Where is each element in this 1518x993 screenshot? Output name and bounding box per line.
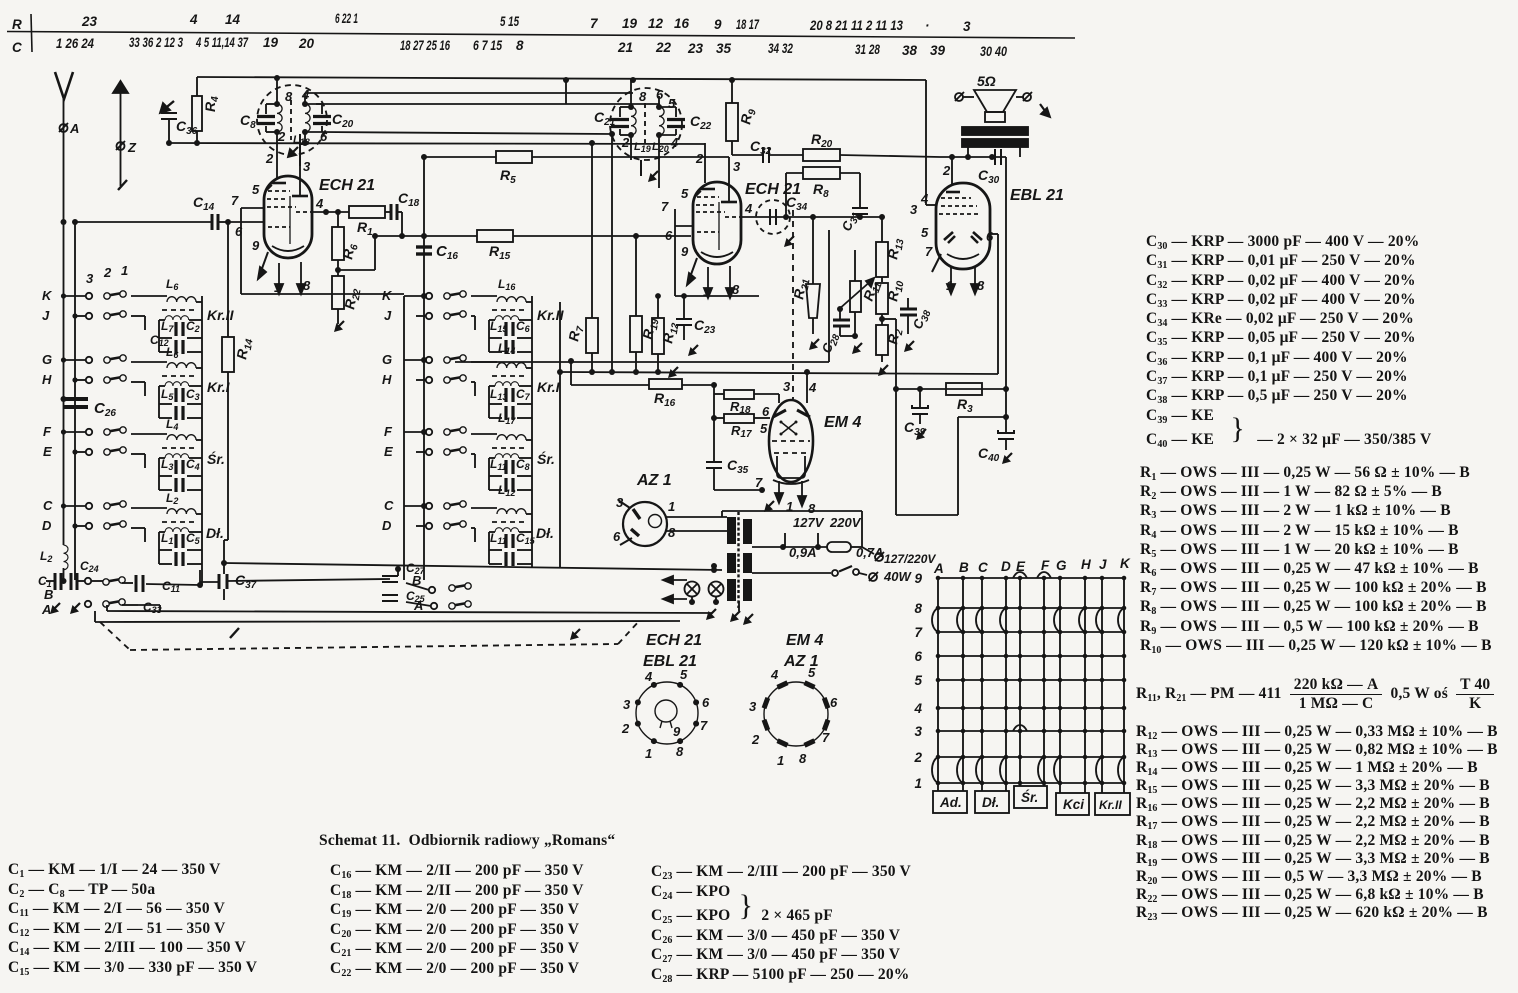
svg-text:C16: C16: [436, 243, 458, 262]
svg-text:6: 6: [914, 649, 922, 664]
svg-text:C2: C2: [186, 319, 200, 334]
svg-text:C20: C20: [332, 111, 354, 130]
svg-text:2: 2: [621, 135, 630, 150]
svg-text:J: J: [42, 308, 50, 323]
svg-text:0,7A: 0,7A: [856, 545, 883, 560]
svg-text:1: 1: [703, 284, 710, 299]
svg-text:8: 8: [676, 744, 684, 759]
svg-text:B: B: [412, 573, 421, 588]
svg-text:C8: C8: [516, 457, 530, 472]
svg-text:R12: R12: [659, 320, 681, 345]
svg-text:8: 8: [303, 278, 311, 293]
svg-text:Śr.: Śr.: [1021, 790, 1038, 805]
svg-text:5: 5: [681, 186, 689, 201]
svg-text:K: K: [42, 288, 53, 303]
svg-text:L1: L1: [161, 531, 173, 546]
svg-text:4: 4: [744, 201, 753, 216]
svg-text:2: 2: [751, 732, 760, 747]
svg-text:D: D: [42, 518, 52, 533]
svg-text:R20: R20: [811, 131, 833, 150]
svg-text:R18: R18: [730, 399, 751, 416]
svg-text:2: 2: [103, 265, 112, 280]
svg-text:C11: C11: [162, 579, 180, 594]
svg-text:L11: L11: [490, 531, 507, 546]
svg-text:Z: Z: [127, 140, 137, 155]
svg-text:R16: R16: [654, 390, 676, 409]
svg-text:0,9A: 0,9A: [789, 545, 816, 560]
svg-text:L2: L2: [40, 549, 52, 564]
svg-text:4: 4: [913, 701, 922, 716]
svg-text:7: 7: [700, 718, 708, 733]
svg-text:1: 1: [786, 499, 793, 514]
svg-text:8: 8: [914, 601, 922, 616]
svg-text:5: 5: [914, 673, 922, 688]
svg-text:R3: R3: [957, 396, 973, 415]
svg-text:3: 3: [910, 202, 918, 217]
svg-text:B: B: [44, 587, 53, 602]
svg-text:L19: L19: [634, 141, 651, 154]
svg-text:D: D: [382, 518, 392, 533]
svg-text:1: 1: [121, 263, 128, 278]
svg-text:8: 8: [668, 525, 676, 540]
svg-text:3: 3: [914, 724, 922, 739]
svg-text:Dł.: Dł.: [206, 525, 224, 541]
svg-text:R15: R15: [489, 243, 511, 262]
svg-text:8: 8: [639, 89, 647, 104]
svg-text:Dł.: Dł.: [982, 795, 999, 810]
svg-text:C37: C37: [235, 572, 257, 591]
svg-text:R8: R8: [813, 181, 829, 200]
svg-text:9: 9: [252, 238, 260, 253]
svg-text:L6: L6: [166, 277, 179, 292]
svg-text:Dł.: Dł.: [536, 525, 554, 541]
svg-text:H: H: [382, 372, 392, 387]
svg-text:EBL 21: EBL 21: [643, 653, 697, 670]
svg-text:127/220V: 127/220V: [884, 552, 936, 566]
svg-text:C39: C39: [904, 419, 926, 438]
svg-text:3: 3: [733, 159, 741, 174]
svg-text:9: 9: [681, 244, 689, 259]
svg-text:G: G: [42, 352, 52, 367]
svg-text:C6: C6: [516, 319, 531, 334]
svg-text:ECH 21: ECH 21: [646, 632, 702, 649]
svg-text:Kr.II: Kr.II: [1099, 798, 1122, 812]
svg-text:6: 6: [613, 529, 621, 544]
svg-text:J: J: [1099, 557, 1107, 572]
svg-text:G: G: [382, 352, 392, 367]
svg-text:C18: C18: [398, 190, 420, 209]
svg-text:3: 3: [616, 495, 624, 510]
svg-text:C5: C5: [186, 531, 201, 546]
svg-text:F: F: [384, 424, 393, 439]
svg-text:5Ω: 5Ω: [977, 73, 996, 89]
svg-text:L16: L16: [498, 277, 516, 292]
svg-text:1: 1: [645, 746, 652, 761]
svg-text:Śr.: Śr.: [207, 450, 225, 467]
svg-text:Kci: Kci: [1063, 797, 1084, 812]
svg-text:C: C: [384, 498, 394, 513]
svg-text:J: J: [384, 308, 392, 323]
svg-text:C7: C7: [516, 387, 531, 402]
svg-text:1: 1: [668, 499, 675, 514]
svg-text:6: 6: [830, 695, 838, 710]
svg-text:A: A: [933, 561, 944, 576]
svg-text:6: 6: [762, 404, 770, 419]
svg-text:3: 3: [783, 379, 791, 394]
svg-text:8: 8: [285, 89, 293, 104]
svg-text:8: 8: [808, 501, 816, 516]
svg-text:C3: C3: [186, 387, 200, 402]
svg-text:C24: C24: [80, 559, 99, 574]
svg-text:8: 8: [732, 282, 740, 297]
svg-text:B: B: [959, 560, 969, 575]
svg-text:3: 3: [86, 271, 94, 286]
svg-text:8: 8: [799, 751, 807, 766]
svg-text:R4: R4: [202, 96, 221, 112]
svg-text:E: E: [43, 444, 52, 459]
svg-text:L7: L7: [161, 319, 174, 334]
svg-text:C: C: [978, 560, 988, 575]
svg-text:40W: 40W: [883, 569, 912, 584]
svg-text:A: A: [69, 121, 79, 136]
svg-text:2: 2: [277, 129, 286, 144]
svg-text:C30: C30: [978, 167, 1000, 186]
svg-text:E: E: [1016, 559, 1026, 574]
svg-text:K: K: [382, 288, 393, 303]
svg-text:EM 4: EM 4: [824, 414, 861, 431]
svg-text:220V: 220V: [829, 515, 862, 530]
svg-text:C33: C33: [143, 600, 162, 615]
svg-text:2: 2: [621, 721, 630, 736]
svg-text:6: 6: [702, 695, 710, 710]
svg-text:C: C: [43, 498, 53, 513]
svg-text:7: 7: [914, 625, 923, 640]
svg-text:4: 4: [644, 669, 653, 684]
svg-text:7: 7: [925, 244, 933, 259]
svg-text:L18: L18: [293, 134, 310, 147]
svg-text:6: 6: [656, 87, 664, 102]
svg-text:G: G: [1056, 558, 1067, 573]
svg-text:F: F: [1041, 558, 1050, 573]
svg-text:Kr.II: Kr.II: [537, 307, 565, 323]
svg-text:Ad.: Ad.: [939, 795, 962, 810]
svg-text:127V: 127V: [793, 515, 825, 530]
svg-text:7: 7: [822, 730, 830, 745]
svg-text:C14: C14: [193, 194, 215, 213]
svg-text:R14: R14: [233, 336, 255, 361]
svg-text:6: 6: [665, 228, 673, 243]
svg-text:A: A: [41, 602, 51, 617]
svg-text:R5: R5: [500, 167, 516, 186]
svg-text:3: 3: [749, 699, 757, 714]
svg-text:C40: C40: [978, 445, 1000, 464]
svg-text:4: 4: [315, 196, 324, 211]
svg-text:5: 5: [921, 225, 929, 240]
svg-text:L20: L20: [652, 141, 669, 154]
svg-text:9: 9: [914, 571, 922, 586]
svg-text:A: A: [413, 598, 423, 613]
svg-text:4: 4: [920, 191, 929, 206]
svg-text:Kr.I: Kr.I: [537, 379, 561, 395]
svg-text:L2: L2: [166, 491, 178, 506]
svg-text:7: 7: [231, 193, 239, 208]
svg-text:Śr.: Śr.: [537, 450, 555, 467]
svg-text:AZ 1: AZ 1: [636, 472, 672, 489]
svg-text:8: 8: [977, 278, 985, 293]
svg-text:4: 4: [808, 380, 817, 395]
svg-text:H: H: [1081, 557, 1091, 572]
svg-text:5: 5: [680, 667, 688, 682]
svg-text:R9: R9: [737, 107, 759, 126]
svg-text:R7: R7: [565, 324, 587, 343]
svg-text:9: 9: [673, 724, 681, 739]
svg-text:1: 1: [777, 753, 784, 768]
svg-text:R13: R13: [884, 236, 906, 261]
svg-text:L3: L3: [161, 457, 173, 472]
svg-text:Kr.I: Kr.I: [207, 379, 231, 395]
svg-text:EM 4: EM 4: [786, 632, 823, 649]
svg-text:R17: R17: [731, 423, 752, 440]
svg-text:D: D: [1001, 559, 1011, 574]
svg-text:C22: C22: [690, 113, 712, 132]
svg-text:5: 5: [760, 421, 768, 436]
svg-text:C31: C31: [839, 208, 863, 234]
svg-text:5: 5: [808, 665, 816, 680]
svg-text:R1: R1: [357, 219, 373, 238]
svg-text:C21: C21: [594, 109, 616, 128]
svg-text:1: 1: [274, 280, 281, 295]
svg-text:6: 6: [320, 129, 328, 144]
svg-text:4: 4: [301, 87, 310, 102]
svg-text:3: 3: [303, 159, 311, 174]
svg-text:5: 5: [668, 96, 676, 111]
svg-text:5: 5: [252, 182, 260, 197]
svg-text:2: 2: [913, 750, 922, 765]
svg-text:2: 2: [695, 151, 704, 166]
svg-text:L5: L5: [161, 387, 174, 402]
svg-text:C4: C4: [186, 457, 200, 472]
svg-text:2: 2: [942, 163, 951, 178]
svg-text:6: 6: [986, 229, 994, 244]
svg-text:C26: C26: [94, 400, 116, 419]
svg-text:4: 4: [770, 667, 779, 682]
svg-text:E: E: [384, 444, 393, 459]
svg-text:1: 1: [946, 278, 953, 293]
svg-text:Kr.II: Kr.II: [207, 307, 235, 323]
svg-text:F: F: [43, 424, 52, 439]
svg-text:EBL 21: EBL 21: [1010, 187, 1064, 204]
svg-text:R6: R6: [339, 242, 361, 261]
svg-text:C8: C8: [240, 112, 256, 131]
svg-text:L11: L11: [490, 457, 507, 472]
svg-text:7: 7: [755, 475, 763, 490]
svg-text:H: H: [42, 372, 52, 387]
svg-text:2: 2: [265, 151, 274, 166]
svg-text:C35: C35: [727, 457, 749, 476]
svg-text:ECH 21: ECH 21: [319, 177, 375, 194]
svg-text:4: 4: [670, 135, 679, 150]
svg-text:6: 6: [235, 224, 243, 239]
svg-text:7: 7: [661, 199, 669, 214]
svg-text:3: 3: [623, 697, 631, 712]
svg-text:C36: C36: [176, 118, 198, 137]
svg-text:C23: C23: [694, 317, 716, 336]
svg-text:K: K: [1120, 556, 1131, 571]
svg-text:L15: L15: [490, 319, 508, 334]
svg-text:1: 1: [914, 776, 922, 791]
